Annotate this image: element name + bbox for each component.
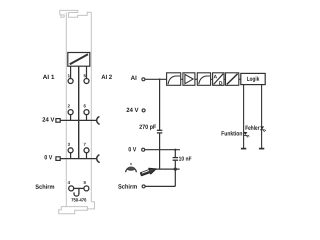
pin number 1: [68, 74, 70, 77]
label 750-476: [71, 198, 86, 201]
wire 0V horizontal: [145, 149, 180, 151]
wire 0V feed-through rail: [60, 158, 97, 160]
terminal circle 24V right: [142, 109, 145, 112]
module housing bottom foot outline: [59, 202, 95, 214]
pin number 2: [68, 104, 70, 107]
wire 24V feed-through rail: [60, 119, 97, 121]
wire end bar Funktion: [241, 148, 246, 150]
capacitor C1 270 pF: [157, 129, 162, 131]
shield drop J hook: [74, 188, 79, 196]
label AI 2: [101, 75, 111, 79]
wire stem pin 3 to 0V rail: [70, 153, 72, 159]
label Fehler: [246, 125, 260, 130]
wire stem pin 7 to 0V rail: [86, 153, 88, 159]
block filter 1: [167, 73, 181, 86]
power jumper contact male 0V: [56, 157, 60, 161]
power jumper contact female 24V: [97, 116, 100, 124]
capacitor C2 10 nF: [173, 157, 178, 159]
terminal circle AI: [142, 78, 145, 81]
block galvanic isolation: [226, 73, 239, 86]
power jumper contact male 24V: [56, 119, 60, 123]
wire AI branch down lower segment: [159, 133, 161, 169]
pin number 5: [84, 74, 86, 77]
terminal circle 0V right: [142, 148, 145, 151]
module housing left edge: [65, 13, 67, 207]
label AI 1: [43, 75, 54, 79]
label Funktion: [222, 131, 243, 136]
wire end bar Fehler: [259, 148, 264, 150]
function symbol box with diagonal on module face: [68, 53, 90, 67]
block amplifier: [183, 73, 195, 86]
terminal circle Schirm right: [142, 185, 145, 188]
label AI right: [131, 76, 137, 80]
wire Schirm to earth riser: [145, 185, 175, 187]
label 0 V right: [129, 147, 137, 151]
wire shield link pin4 to pin8: [74, 187, 84, 189]
wire block2 to block3: [195, 78, 197, 80]
pin number 7: [84, 143, 86, 146]
block A/D converter: [213, 73, 224, 86]
terminal circle pin 5: [84, 79, 89, 84]
wire AI branch down upper segment: [159, 79, 161, 130]
node earth junction dot: [174, 168, 177, 171]
LED Funktion: [243, 132, 249, 137]
label 24 V left: [42, 117, 54, 121]
wire block5 to logic: [239, 78, 241, 80]
wire stem pin 2 to 24V rail: [70, 115, 72, 121]
terminal circle pin 3: [68, 148, 73, 153]
wire block1 to block2: [181, 78, 183, 80]
pin number 4: [68, 181, 70, 184]
wire stem box to pin 5: [86, 66, 88, 78]
wire stem pin 6 to 24V rail: [86, 115, 88, 121]
wire 10nF branch upper: [174, 150, 176, 158]
module housing top latch outline: [60, 10, 92, 17]
terminal circle pin 6: [84, 110, 89, 115]
label 270 pF: [139, 125, 156, 131]
module housing right edge: [90, 12, 92, 202]
wire logic to Fehler LED: [261, 85, 263, 149]
wire block4 to block5: [224, 78, 226, 80]
terminal circle pin 2: [68, 110, 73, 115]
label Schirm right: [118, 184, 137, 189]
wire functional earth rail: [155, 168, 180, 170]
wire 10nF branch lower to shield node: [174, 160, 176, 186]
terminal circle pin 8: [84, 186, 89, 191]
wire stem box to pin 1: [70, 66, 72, 78]
wire block3 to block4: [211, 78, 213, 80]
pin number 8: [84, 181, 86, 184]
rail contact blade arrow: [140, 166, 157, 177]
terminal circle pin 4: [69, 186, 74, 191]
block Logik: [241, 73, 265, 84]
block filter 2: [197, 73, 210, 86]
node 0V to 10nF junction: [174, 149, 176, 151]
pin number 3: [68, 143, 70, 146]
node AI branch junction: [159, 78, 161, 80]
label 24 V right: [127, 108, 139, 112]
wire AI to filter chain: [145, 78, 166, 80]
pin number 6: [84, 104, 86, 107]
terminal circle pin 7: [84, 148, 89, 153]
LED Fehler: [260, 126, 266, 131]
wire internal signal line down to 0V rail: [78, 66, 80, 158]
wire logic to Funktion LED: [243, 85, 245, 149]
terminal circle pin 1: [68, 79, 73, 84]
label 10 nF: [179, 157, 192, 161]
DIN rail symbol: [126, 163, 137, 172]
label 0 V left: [45, 155, 53, 159]
power jumper contact female 0V: [97, 155, 100, 163]
label Schirm left: [35, 184, 54, 189]
